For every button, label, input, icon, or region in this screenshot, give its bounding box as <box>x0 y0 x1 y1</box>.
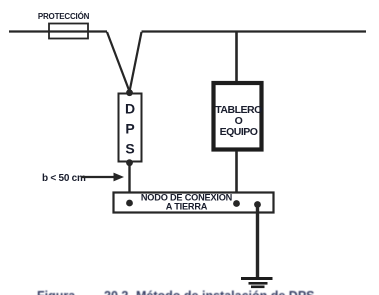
wire drop to tablero <box>235 32 238 81</box>
svg-text:b < 50 cm: b < 50 cm <box>42 173 86 184</box>
svg-text:Figura: Figura <box>37 289 76 295</box>
svg-text:20.2: 20.2 <box>104 289 128 295</box>
DPS box <box>119 94 142 162</box>
wire top-right segment <box>142 30 367 32</box>
svg-text:P: P <box>125 121 134 137</box>
svg-text:S: S <box>125 141 134 157</box>
svg-text:EQUIPO: EQUIPO <box>220 126 258 138</box>
ground node box (nodo de conexión a tierra) <box>114 193 274 213</box>
junction dot node middle <box>233 200 240 207</box>
wire DPS to ground node <box>128 162 130 203</box>
TABLERO O EQUIPO box <box>214 83 262 150</box>
junction dot node left <box>126 200 133 207</box>
wire earth conductor <box>256 205 259 279</box>
svg-text:A TIERRA: A TIERRA <box>166 202 208 212</box>
wire diagonal left down to DPS <box>107 32 130 92</box>
wire top-left segment (phase conductor) <box>9 30 107 32</box>
junction dot node right <box>254 201 261 208</box>
protection device (fuse) box <box>49 24 88 39</box>
svg-text:PROTECCIÓN: PROTECCIÓN <box>38 12 90 21</box>
junction dot DPS top <box>126 89 133 96</box>
wire diagonal right up from DPS <box>130 32 142 92</box>
ground symbol <box>241 277 273 280</box>
arrow pointing to DPS earthing conductor <box>81 176 116 178</box>
junction dot DPS bottom <box>126 159 133 166</box>
svg-text:Método de instalación de DPS: Método de instalación de DPS <box>136 289 315 295</box>
caption (clipped at bottom edge): Figura 20.2 Método de instalación de DPS <box>37 289 315 295</box>
svg-text:D: D <box>125 101 135 117</box>
wire tablero to ground node <box>235 151 238 203</box>
